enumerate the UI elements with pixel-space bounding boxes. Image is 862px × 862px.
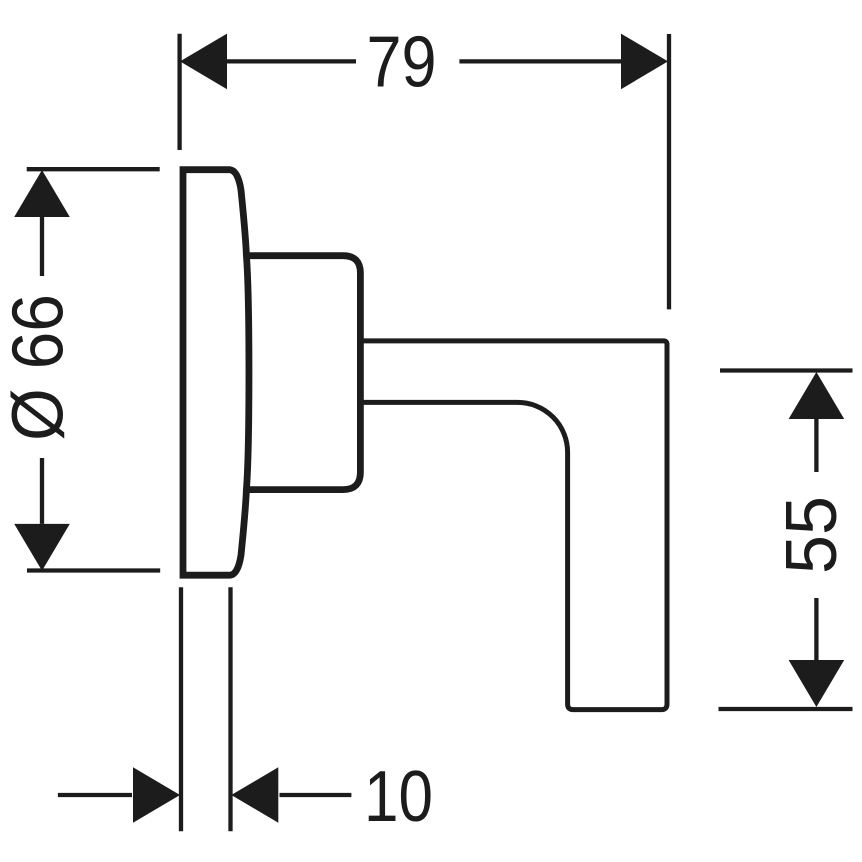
svg-text:10: 10 [364,757,433,837]
dimension Ø66: up arrow [14,170,70,217]
dimension Ø66: line lower segment [40,458,44,524]
svg-text:Ø 66: Ø 66 [0,294,79,441]
dimension Ø66: down arrow [14,524,70,571]
svg-text:79: 79 [367,23,437,103]
dimension Ø66: top tick [27,167,160,171]
lever handle outline [360,341,667,710]
dimension 55: down arrow [789,660,845,707]
dimension Ø66: bottom tick [27,568,160,572]
dimension Ø66: line upper segment [40,217,44,276]
dimension 79: right extension line [667,34,671,309]
dimension 10: right-pointing arrow [133,767,180,823]
svg-text:55: 55 [772,496,852,574]
dimension 55: bottom tick [719,707,853,711]
sleeve (cartridge hub) outline [246,256,360,490]
dimension 55: up arrow [789,372,845,419]
dimension 10: left-pointing arrow [231,767,278,823]
dimension 79: line left segment [225,59,356,63]
dimension 79: left arrow [180,34,227,90]
escutcheon plate outline [183,170,249,576]
dimension 10: right extension line [228,587,232,831]
dimension 10: left extension line [179,587,183,831]
dimension 79: line right segment [459,59,623,63]
dimension 79: left extension line [177,34,181,150]
dimension 55: line upper segment [814,419,818,472]
dimension 10: line left segment [58,793,132,797]
dimension 79: right arrow [621,34,668,90]
dimension 10: line right segment [280,793,352,797]
dimension 55: line lower segment [814,598,818,660]
dimension 55: top tick [720,368,853,372]
